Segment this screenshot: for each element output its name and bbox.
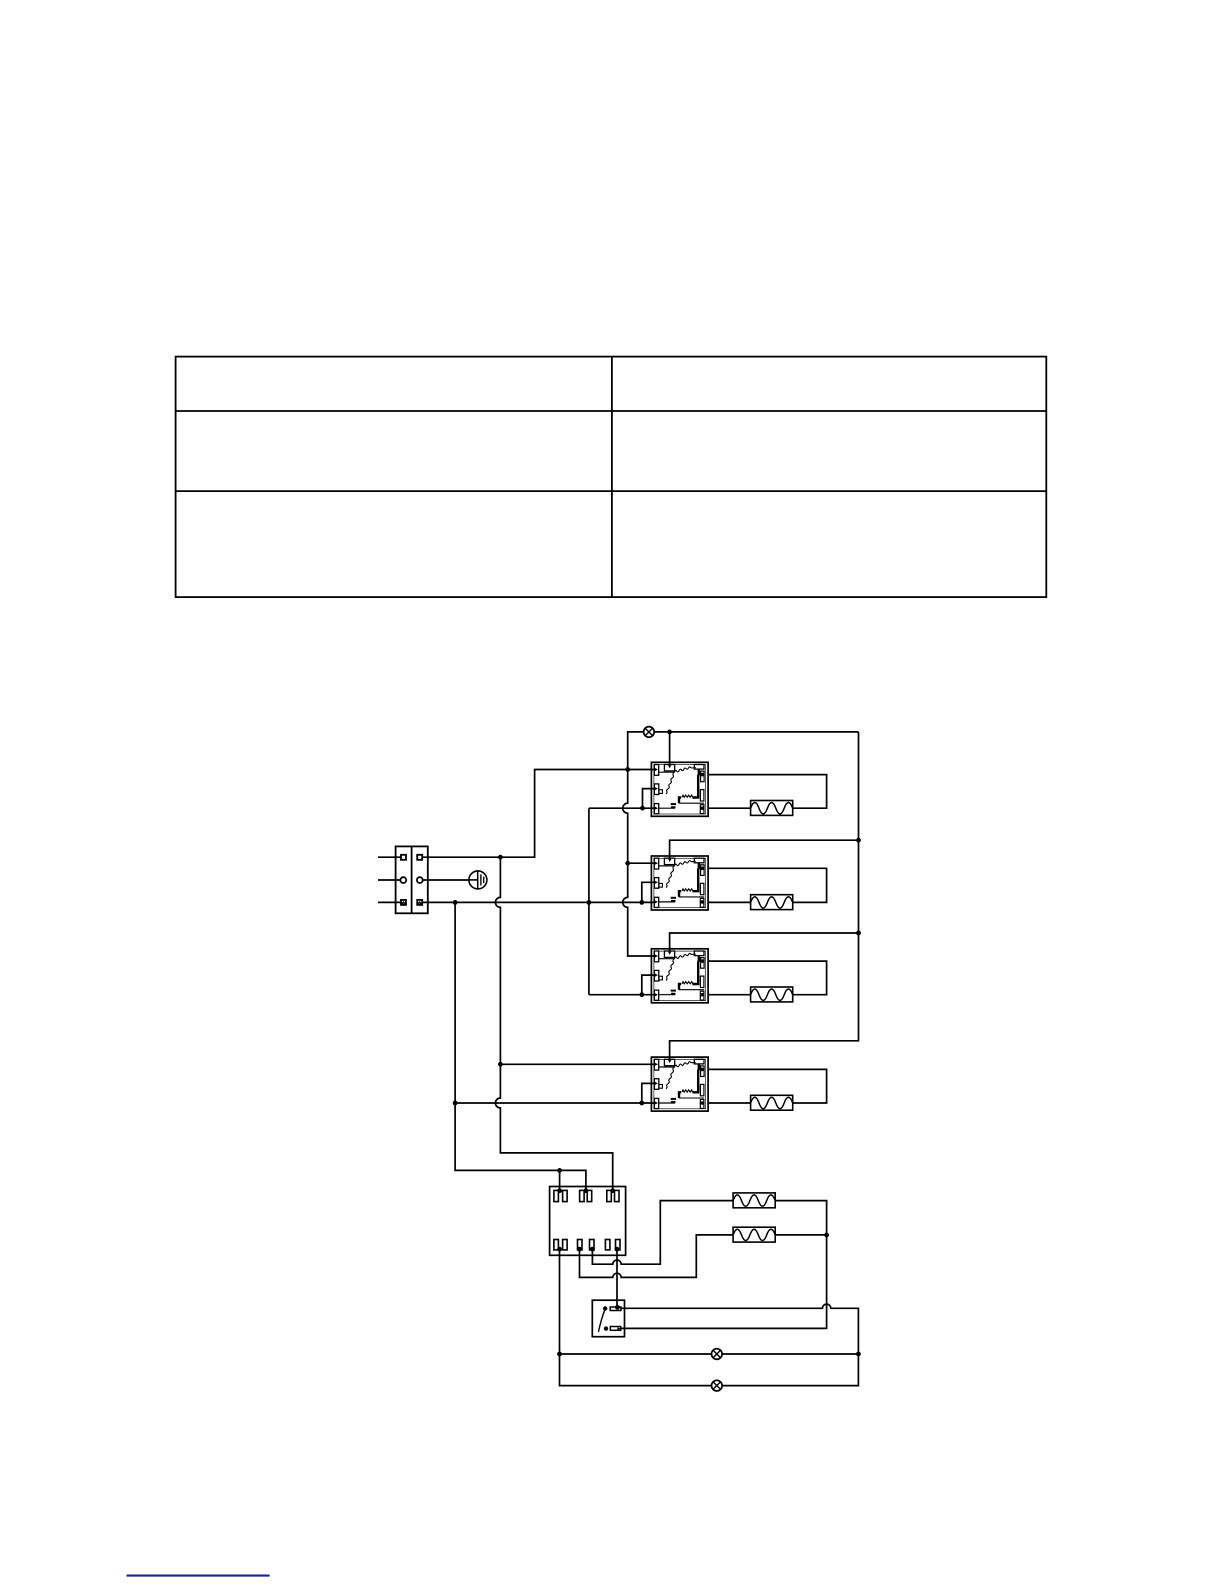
wire: regulator 3 bottom feed — [589, 994, 655, 996]
thermostat actuating lever — [598, 1309, 605, 1332]
table — [176, 357, 1047, 597]
terminal N pair — [401, 900, 406, 905]
pilot lamp H1 — [644, 727, 655, 738]
node: regulator 1 pilot tap — [667, 730, 672, 735]
wire: oven switch to lower oven element — [580, 1235, 734, 1278]
node: oven switch T1 tap — [557, 1168, 562, 1173]
node: branch to regulator 2 — [625, 861, 630, 866]
wire: phase vertical A feeding regulators 1-3 — [623, 770, 655, 957]
wire: supply lead L — [378, 856, 401, 858]
node: oven element junction — [824, 1233, 829, 1238]
thermostat pivots — [615, 1305, 620, 1310]
hotplate element 3 — [751, 987, 793, 1002]
terminal block X1 — [378, 846, 428, 913]
node: lamp line 1 left — [557, 1352, 562, 1357]
wire: jog to regulator 4 middle terminal — [642, 1083, 655, 1103]
wire: pilot branch to regulator 2 — [670, 840, 859, 860]
terminal PE pair — [400, 877, 406, 883]
wire: regulator 1 bottom feed — [589, 807, 655, 809]
wire: lamp line top — [628, 732, 859, 770]
energy regulator 1 — [651, 762, 708, 816]
wire: branch to regulator 2 left terminal — [628, 862, 655, 864]
wire: switch drop to lamp lines — [560, 1249, 712, 1385]
node: regulator 2 jog — [639, 900, 644, 905]
node: regulator 3 jog — [639, 992, 644, 997]
node: lamp line 1 right — [856, 1352, 861, 1357]
wire: PE to earth — [422, 879, 469, 881]
wire: oven switch to upper oven element — [592, 1201, 733, 1265]
wire: regulator 4 heater loop — [708, 1069, 827, 1103]
wire: lamp line 1 — [560, 1353, 859, 1355]
node: pilot branch regulator 3 — [856, 931, 861, 936]
terminal L pair — [401, 855, 406, 860]
switch bottom terminals — [554, 1240, 559, 1250]
wire: neutral vertical C to regulator 4 and oven switch — [455, 902, 586, 1191]
wire: phase L from block to corner — [422, 770, 654, 858]
oven thermostat F1 — [592, 1300, 624, 1337]
node: lamp feed tap on phase wire — [625, 767, 630, 772]
oven element upper — [733, 1193, 775, 1208]
node: neutral tap to vertical D — [587, 900, 592, 905]
energy regulator 2 — [651, 856, 708, 910]
oven element lower — [733, 1227, 775, 1242]
wire: neutral from block to regulator 2 — [422, 901, 654, 903]
node: regulator 4 jog — [639, 1101, 644, 1106]
switch terminal junctions — [557, 1188, 562, 1193]
wire: thermostat to lamp bus — [621, 1304, 859, 1385]
wire: supply lead PE — [378, 879, 400, 881]
hotplate element 4 — [751, 1095, 793, 1110]
wire: regulator 4 bottom feed — [455, 1102, 654, 1104]
wire: vertical D linking regulator 1 and 3 bottoms — [588, 808, 590, 995]
wire: regulator 1 pilot terminal drop — [669, 732, 671, 767]
node: regulator 1 jog — [640, 806, 645, 811]
energy regulator 4 — [651, 1057, 708, 1111]
wire: regulator 3 heater loop — [708, 961, 827, 995]
wire: phase vertical B feeding regulator 4 and oven switch — [495, 857, 612, 1191]
terminal block outline — [396, 846, 428, 913]
wire: regulator 2 heater loop — [708, 868, 827, 902]
ground (earth) symbol — [422, 871, 487, 889]
switch top terminals — [554, 1190, 559, 1201]
wire: pilot branch to regulator 3 — [670, 933, 859, 953]
node: phase tap — [498, 855, 503, 860]
thermostat contact 2 — [610, 1327, 620, 1331]
node: neutral tap to vertical C — [453, 900, 458, 905]
wire: pilot bus right vertical — [670, 732, 859, 1061]
node: branch to regulator 4 bottom — [453, 1101, 458, 1106]
wire: branch to regulator 4 left terminal — [500, 1063, 654, 1065]
wire: oven elements common return to thermostat — [621, 1201, 827, 1329]
wire: jog to regulator 3 middle terminal — [642, 975, 655, 995]
thermostat contact 1 — [610, 1307, 621, 1311]
energy regulator 3 — [651, 949, 708, 1003]
wire: lower oven element to common — [775, 1234, 827, 1236]
wire: jog to regulator 2 middle terminal — [642, 882, 655, 902]
node: pilot branch regulator 2 — [856, 838, 861, 843]
wire: oven switch to thermostat — [616, 1249, 618, 1307]
footer rule — [127, 1575, 270, 1577]
wire: drop to oven switch T1 — [559, 1170, 561, 1191]
hotplate element 2 — [751, 895, 793, 910]
node: branch to regulator 4 — [498, 1062, 503, 1067]
wire: jog to regulator 1 middle terminal — [643, 789, 655, 809]
wire: regulator 1 heater loop — [708, 775, 827, 809]
thermostat outline — [592, 1300, 624, 1337]
oven lamp 2 — [712, 1380, 723, 1391]
wire: supply lead N — [378, 901, 401, 903]
oven lamp 1 — [712, 1349, 723, 1360]
hotplate element 1 — [751, 801, 793, 816]
switch outline — [550, 1187, 626, 1256]
oven selector switch S1 — [550, 1187, 626, 1256]
